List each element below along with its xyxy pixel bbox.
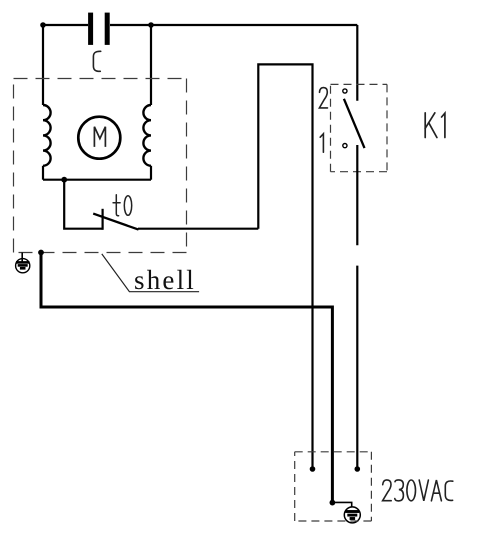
- label K1: [425, 113, 445, 138]
- plug box 230VAC dashed: [295, 452, 372, 521]
- wire right lead down to aux winding: [150, 25, 152, 105]
- leader line shell label: [102, 254, 199, 292]
- thermal switch t0 contact post: [101, 209, 103, 230]
- wire left winding bottom: [42, 166, 44, 180]
- wire K1 feed drop: [356, 25, 358, 101]
- wire left lead down to main winding: [42, 25, 44, 105]
- ground PE symbol shell: [16, 253, 30, 273]
- wire down from motor to t0: [64, 180, 102, 229]
- wire right winding bottom: [150, 166, 152, 180]
- wire protective earth run: [41, 253, 332, 503]
- node motor bottom junction: [61, 177, 67, 183]
- wire top from capacitor right to K1 drop: [110, 24, 357, 26]
- node plug terminal N: [355, 466, 361, 472]
- relay K1 terminal 2 circle: [343, 89, 347, 93]
- enclosure shell dashed box: [14, 79, 187, 253]
- node plug earth junction: [330, 500, 336, 506]
- relay K1 terminal 1 circle: [343, 144, 347, 148]
- node left capacitor junction: [40, 22, 46, 28]
- wire K1 output lower segment to plug N: [356, 266, 358, 469]
- wire K1 output upper segment: [356, 145, 358, 245]
- wire riser up and over to plug L: [258, 64, 312, 469]
- thermal switch t0 blade: [93, 214, 138, 230]
- wire top-left from capacitor to left node: [43, 24, 88, 26]
- label C: [93, 51, 100, 71]
- label t0: [113, 195, 132, 216]
- relay K1 blade: [344, 99, 365, 148]
- wire earth link to PE symbol: [332, 502, 351, 507]
- label shell text: [134, 267, 196, 294]
- inductor aux winding right: [143, 105, 151, 166]
- wire from t0 to riser: [138, 228, 258, 230]
- label 230VAC: [383, 480, 453, 501]
- inductor main winding left: [43, 105, 51, 166]
- node right capacitor junction: [148, 22, 154, 28]
- node shell earth junction: [38, 250, 44, 256]
- ground PE symbol plug: [344, 507, 360, 523]
- relay box K1 dashed: [331, 84, 388, 171]
- node plug terminal L: [310, 466, 316, 472]
- capacitor C plates: [88, 13, 110, 45]
- label 2: [319, 88, 327, 108]
- wire motor bottom bar: [43, 179, 151, 181]
- motor letter M: [94, 127, 105, 147]
- motor M circle: [78, 117, 120, 159]
- label 1: [320, 134, 323, 152]
